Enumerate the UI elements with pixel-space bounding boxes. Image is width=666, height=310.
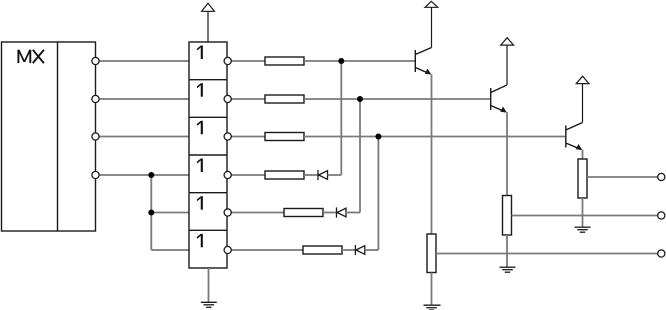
power VCC arrow above Q1: [425, 1, 438, 47]
resistor R4: [265, 171, 304, 179]
label 1 cell 2: [197, 83, 202, 97]
wire Q2 emitter down to R8: [506, 112, 508, 195]
pin buffer out 4: [224, 171, 231, 178]
pin buffer out 5: [224, 209, 231, 216]
label MX: [18, 50, 44, 63]
ground below R9: [575, 227, 591, 232]
pin buffer out 2: [224, 95, 231, 102]
diode D1: [318, 170, 328, 180]
wire buffer out 1 to R1: [228, 60, 265, 62]
wire MX pin3 to buffer input 3: [96, 136, 190, 138]
ground below buffer array: [201, 268, 217, 307]
wire buffer out 4 to R4: [228, 174, 265, 176]
wire buffer out 3 to R3: [228, 136, 265, 138]
pin output terminal 2: [658, 212, 665, 219]
junction node B: [357, 96, 363, 102]
wire Q3 emitter down to R9: [582, 150, 584, 159]
resistor R7 (Q1 emitter): [427, 234, 436, 273]
transistor Q2: [491, 85, 507, 113]
resistor R2: [265, 95, 304, 103]
label 1 cell 6: [197, 234, 202, 248]
ground below R7: [424, 305, 441, 310]
wire R7 tap to output 3 terminal: [436, 253, 661, 255]
wire R4 to D1: [304, 174, 318, 176]
pin buffer out 3: [224, 133, 231, 140]
ground below R8: [500, 267, 516, 272]
wire D3 to node C branch: [365, 249, 379, 251]
pin MX out 1: [92, 57, 99, 64]
wire vertical bus to inputs 5 and 6: [150, 175, 152, 250]
wire R8 tap to output 2 terminal: [512, 215, 662, 217]
pin output terminal 1: [658, 173, 665, 180]
diode D2: [337, 207, 347, 217]
power VCC arrow above Q3: [576, 76, 589, 122]
wire MX pin4 to buffer input 4: [96, 174, 190, 176]
wire node A vertical down to D1: [340, 61, 342, 175]
wire R9 tap to output 1 terminal: [587, 176, 661, 178]
wire R7 to ground: [431, 273, 433, 306]
IC U1 MX multiplexer body: [2, 42, 96, 231]
wire to buffer input 5: [151, 212, 189, 214]
power VCC arrow above buffer array: [202, 3, 215, 42]
wire D1 to node A branch: [328, 174, 342, 176]
junction node A: [338, 58, 344, 64]
wire R1 to Q1 base: [304, 60, 415, 62]
wire MX pin1 to buffer input 1: [96, 60, 190, 62]
diode D3: [355, 245, 364, 255]
wire buffer out 6 to R6: [228, 249, 303, 251]
pin output terminal 3: [658, 250, 665, 257]
pin buffer out 1: [224, 57, 231, 64]
resistor R5: [284, 209, 323, 217]
pin MX out 4: [92, 171, 99, 178]
resistor R9 (Q3 emitter): [578, 159, 587, 198]
wire Q1 emitter down to R7: [431, 74, 433, 234]
label 1 cell 1: [197, 46, 202, 60]
wire R2 to Q2 base: [304, 98, 491, 100]
resistor R6: [303, 246, 342, 254]
power VCC arrow above Q2: [501, 38, 514, 85]
wire R5 to D2: [323, 212, 337, 214]
transistor Q3: [566, 123, 583, 151]
wire MX pin2 to buffer input 2: [96, 98, 190, 100]
label 1 cell 5: [197, 196, 202, 210]
resistor R1: [265, 57, 304, 65]
junction node C: [375, 134, 381, 140]
label 1 cell 3: [197, 121, 202, 135]
wire buffer out 2 to R2: [228, 98, 265, 100]
buffer array U2 body: [189, 42, 227, 268]
wire R9 to ground: [582, 198, 584, 227]
resistor R8 (Q2 emitter): [503, 196, 512, 236]
transistor Q1: [415, 48, 431, 75]
wire to buffer input 6: [151, 249, 189, 251]
wire node B vertical down to D2: [359, 99, 361, 213]
wire node C vertical down to D3: [377, 137, 379, 251]
junction dot at input 5 branch: [148, 210, 154, 216]
wire R6 to D3: [342, 249, 355, 251]
pin MX out 2: [92, 95, 99, 102]
pin buffer out 6: [224, 246, 231, 253]
wire buffer out 5 to R5: [228, 212, 284, 214]
resistor R3: [265, 133, 304, 141]
wire R8 to ground: [506, 235, 508, 267]
pin MX out 3: [92, 133, 99, 140]
label 1 cell 4: [197, 159, 202, 173]
junction dot at input 4 branch: [148, 172, 154, 178]
wire D2 to node B branch: [346, 212, 360, 214]
wire R3 to Q3 base: [304, 136, 566, 138]
